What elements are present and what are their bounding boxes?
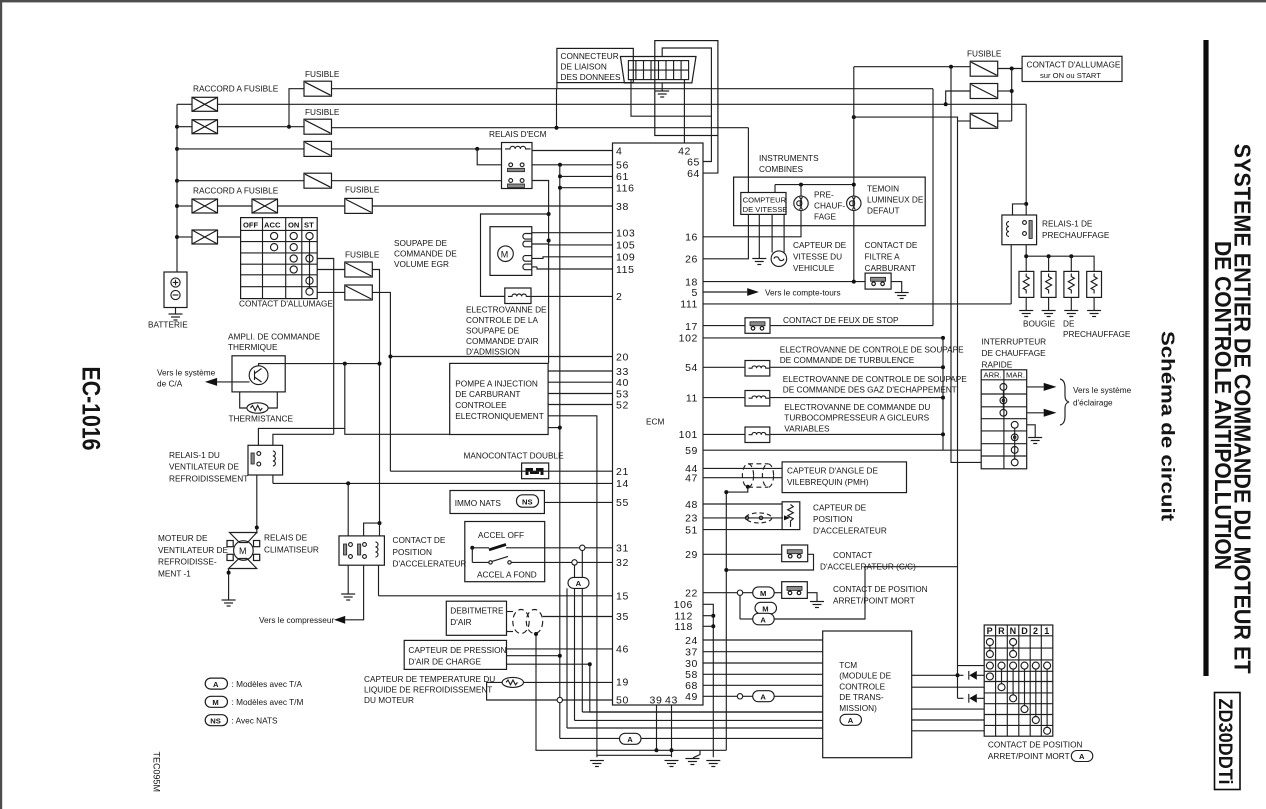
svg-text:2: 2 <box>616 291 622 303</box>
svg-text:CLIMATISEUR: CLIMATISEUR <box>264 545 319 554</box>
svg-text:POMPE A INJECTION: POMPE A INJECTION <box>455 379 538 388</box>
wire: stop switch up to LA <box>770 325 933 327</box>
wire: pump outputs to ECM 33/40/53/52 <box>548 370 612 372</box>
wire: TA drops from circles <box>581 551 583 713</box>
svg-text:ARRET/POINT MORT: ARRET/POINT MORT <box>833 597 915 606</box>
wire: base line to Vers C/A arrow <box>217 381 249 383</box>
wire: temoin lamp down to line 18 <box>853 211 855 282</box>
legend (M) <box>205 696 227 707</box>
svg-text:POSITION: POSITION <box>813 515 852 524</box>
wire: relay contact2 out down to pump <box>532 181 549 364</box>
wire: relay coil out to ECM pin 4 <box>532 150 613 152</box>
svg-text:RELAIS D'ECM: RELAIS D'ECM <box>489 130 547 139</box>
speedometer box COMPTEUR DE VITESSE <box>741 193 786 215</box>
wire: V958 long drop to PRND <box>854 117 958 675</box>
crank sensor CAPTEUR D'ANGLE DE VILEBREQUIN (PMH) <box>742 464 773 487</box>
wire: A branch to V958 <box>774 567 957 619</box>
wire: FB in from LB <box>946 91 971 104</box>
wire: FL1 out long line to preheat relay feed <box>218 103 1027 105</box>
wire: line 54 <box>703 366 745 368</box>
svg-text:46: 46 <box>616 643 629 655</box>
cruise accel switch CONTACT D'ACCELERATEUR (C/C) <box>782 545 808 562</box>
wire: ST feed to fan relay coil <box>273 434 334 445</box>
svg-text:DE CHAUFFAGE: DE CHAUFFAGE <box>982 349 1047 358</box>
wire: glow plug bus <box>1026 256 1094 271</box>
EGR motor pins <box>523 234 532 270</box>
injection pump box POMPE A INJECTION <box>450 363 548 434</box>
diode D1 <box>968 671 970 680</box>
svg-text:21: 21 <box>616 466 629 478</box>
wire: accel feed from pin31 dot <box>471 548 473 563</box>
switch grid ARR/MAR <box>981 370 1026 469</box>
svg-text:ARR.: ARR. <box>984 371 1002 380</box>
glow plug 2 <box>1041 271 1056 310</box>
svg-text:PRE-: PRE- <box>814 191 834 200</box>
wire: line 31 <box>506 547 613 549</box>
wire: bottom bus continues to riser <box>657 749 727 751</box>
wire: line 48 <box>703 503 782 505</box>
svg-text:DEBITMETRE: DEBITMETRE <box>450 607 504 616</box>
svg-text:D'AIR: D'AIR <box>450 618 471 627</box>
svg-text:CONNECTEUR: CONNECTEUR <box>561 52 619 61</box>
fuse FB <box>970 84 998 99</box>
svg-text:(MODULE DE: (MODULE DE <box>839 672 891 681</box>
wire: transistor collector up to line 20 feed <box>259 364 380 366</box>
svg-text:P: P <box>987 626 993 636</box>
wire LD: F2 out ignition line to instruments drop <box>332 127 749 129</box>
wire: line 16 tick <box>703 236 704 238</box>
DLC connector trapezoid <box>620 57 696 83</box>
svg-text:40: 40 <box>616 377 629 389</box>
wire: ignition drop into speedometer <box>747 128 749 193</box>
svg-text:ACC: ACC <box>264 221 281 230</box>
(A) marker TCM <box>840 714 862 725</box>
svg-text:ELECTROVANNE DE CONTROLE DE SO: ELECTROVANNE DE CONTROLE DE SOUPAPE <box>780 345 964 354</box>
svg-text:COMBINES: COMBINES <box>759 165 804 174</box>
ground (39/43) <box>665 761 679 767</box>
wire: AC relay coil to line 15 <box>378 565 380 596</box>
svg-text:DE LIAISON: DE LIAISON <box>561 62 607 71</box>
svg-text:N: N <box>1010 626 1017 636</box>
ECM right pin numbers <box>674 146 700 704</box>
ground (glow4) <box>1087 311 1101 317</box>
wire: temp sensor return loop to pin 50 <box>487 682 613 700</box>
svg-text:VEHICULE: VEHICULE <box>793 264 835 273</box>
wire: switch to fuse F6 <box>317 269 345 271</box>
wire: 106/112/118 ground drop <box>703 604 713 757</box>
svg-text:47: 47 <box>685 473 698 485</box>
svg-text:61: 61 <box>616 171 629 183</box>
wire: temp sensor to pin 19 <box>524 681 613 683</box>
label box CONNECTEUR DE LIAISON DES DONNEES <box>557 48 633 82</box>
fusible link FL2 <box>192 120 218 134</box>
svg-text:A: A <box>627 735 633 744</box>
svg-text:VARIABLES: VARIABLES <box>784 424 830 433</box>
wire: R2 bottom <box>631 80 711 117</box>
svg-text:23: 23 <box>685 513 698 525</box>
svg-text:A: A <box>1079 752 1085 761</box>
ground (glow2) <box>1042 311 1056 317</box>
fuse F1 <box>304 81 332 96</box>
wire: solenoid to ECM pin 2 <box>531 295 613 297</box>
ground (AC relay) <box>341 594 355 600</box>
svg-text:15: 15 <box>616 591 629 603</box>
brace to lighting system <box>1060 379 1069 425</box>
wire: EGR pin lines to ECM 103/105/109/115 <box>532 232 613 234</box>
svg-text:: Avec NATS: : Avec NATS <box>232 717 279 726</box>
svg-text:NS: NS <box>210 716 221 725</box>
wire: coil pin hook <box>1013 204 1027 215</box>
wire: A/T branch from line 22 <box>739 595 741 619</box>
svg-text:M: M <box>501 250 509 260</box>
wire: contact feed to fan relay <box>258 428 344 445</box>
wire: switch to lighting arrows <box>1027 386 1044 388</box>
wire: F6 out down to A/C relay <box>372 270 379 524</box>
glow plug 3 <box>1064 271 1079 310</box>
wire: TCM lower outputs to grid <box>912 708 985 710</box>
svg-text:115: 115 <box>616 264 635 276</box>
svg-text:RELAIS-1 DE: RELAIS-1 DE <box>1042 220 1093 229</box>
wire: immo to pin 55 <box>544 501 612 503</box>
svg-text:EC-1016: EC-1016 <box>77 367 105 451</box>
boost sensor CAPTEUR DE PRESSION D'AIR DE CHARGE <box>404 640 506 669</box>
wire: V597 ground spur <box>597 754 672 756</box>
svg-text:11: 11 <box>686 392 698 404</box>
wire: lines 44/47 <box>703 467 782 469</box>
wire: fan relay contact to motor <box>256 475 258 534</box>
svg-text:DES DONNEES: DES DONNEES <box>561 73 622 82</box>
svg-text:ELECTROVANNE DE CONTROLE DE SO: ELECTROVANNE DE CONTROLE DE SOUPAPE <box>783 375 967 384</box>
wire: AC relay contact2 to compressor arrow <box>345 565 363 620</box>
(A) marker on TA drops <box>568 577 589 588</box>
svg-text:D'AIR DE CHARGE: D'AIR DE CHARGE <box>408 657 481 666</box>
svg-text:17: 17 <box>685 321 698 333</box>
ground (ECM main) <box>590 761 604 767</box>
fuse F6 <box>345 262 373 277</box>
relay RELAIS-1 DE PRECHAUFFAGE <box>1002 215 1037 245</box>
svg-text:VITESSE DU: VITESSE DU <box>793 253 842 262</box>
DLC inner loop R2 <box>662 48 711 162</box>
wire: solenoid3 out <box>770 433 943 435</box>
svg-text:RACCORD A FUSIBLE: RACCORD A FUSIBLE <box>193 187 279 196</box>
arrow Vers le compresseur <box>334 616 345 624</box>
wire: switch ground <box>1027 425 1036 438</box>
svg-text:ST: ST <box>304 221 314 230</box>
wire: temoin feed drop V854 <box>853 67 855 197</box>
svg-text:ELECTROVANNE DE: ELECTROVANNE DE <box>466 306 547 315</box>
svg-text:R: R <box>998 626 1005 636</box>
legend (A) <box>205 678 227 689</box>
wire: pressure sensor to TCM drop <box>507 663 590 665</box>
svg-text:SOUPAPE DE: SOUPAPE DE <box>466 327 520 336</box>
svg-text:A: A <box>760 693 766 702</box>
ground (fast heat switch) <box>1028 438 1042 444</box>
svg-text:DE VITESSE: DE VITESSE <box>743 205 788 214</box>
wire: pump output to long feed V559 <box>548 427 560 429</box>
wire LA: F1 out to right side <box>332 88 934 90</box>
wire: battery bus <box>176 104 178 272</box>
svg-text:TURBOCOMPRESSEUR A GICLEURS: TURBOCOMPRESSEUR A GICLEURS <box>784 414 929 423</box>
svg-text:26: 26 <box>685 254 698 266</box>
gear position grid P R N D 2 1 <box>984 625 1053 736</box>
air flow meter DEBITMETRE D'AIR <box>446 601 506 635</box>
svg-text:M: M <box>239 546 247 556</box>
fuse FC <box>970 113 998 128</box>
relay RELAIS-1 ventilateur <box>248 445 283 475</box>
svg-text:CONTROLE DE LA: CONTROLE DE LA <box>466 316 538 325</box>
svg-text:Vers le système: Vers le système <box>157 369 216 378</box>
DLC pin grid <box>628 61 688 80</box>
svg-text:A: A <box>576 579 582 588</box>
fuse F3 <box>304 141 332 156</box>
svg-text:CONTACT DE POSITION: CONTACT DE POSITION <box>988 741 1083 750</box>
wire: DLC pin to ECM pin 42 <box>683 80 685 143</box>
svg-text:50: 50 <box>616 694 629 706</box>
ground (glow3) <box>1064 311 1078 317</box>
wire: line 14 to ECM <box>273 482 613 484</box>
svg-text:TCM: TCM <box>839 661 857 670</box>
wire: feed to fuse FA <box>854 66 970 68</box>
svg-text:A: A <box>213 680 219 689</box>
svg-text:CAPTEUR DE: CAPTEUR DE <box>813 504 867 513</box>
wire: switch ST output down to fan relay feed <box>317 259 334 435</box>
wire: switch to fuse F7 <box>317 291 345 293</box>
ground (bent) <box>693 750 700 758</box>
solenoid ELECTROVANNE admission <box>505 288 531 304</box>
svg-text:116: 116 <box>616 183 635 195</box>
(A) marker line 49 <box>753 691 775 702</box>
(M) marker below <box>755 602 777 614</box>
svg-text:LIQUIDE DE REFROIDISSEMENT: LIQUIDE DE REFROIDISSEMENT <box>364 685 492 694</box>
wire: speedometer ground pin <box>758 214 760 258</box>
svg-text:32: 32 <box>616 557 629 569</box>
svg-text:111: 111 <box>680 299 698 311</box>
fuse F7 <box>345 285 373 300</box>
wire: pins 39/43 drop <box>656 705 658 750</box>
svg-text:20: 20 <box>616 351 629 363</box>
svg-text:DE: DE <box>1063 320 1075 329</box>
(A) marker <box>753 613 775 625</box>
svg-text:d'éclairage: d'éclairage <box>1073 399 1113 408</box>
EGR valve motor box <box>490 227 532 276</box>
svg-text:RAPIDE: RAPIDE <box>982 360 1013 369</box>
svg-text:54: 54 <box>685 362 698 374</box>
wire: flow meter bottom to bottom bus <box>536 634 657 751</box>
wire: FA out to ignition box <box>998 68 1022 70</box>
neutral switch CONTACT DE POSITION ARRET/POINT MORT <box>782 582 808 599</box>
svg-text:REFROIDISSEMENT: REFROIDISSEMENT <box>169 474 248 483</box>
transistor Q1 <box>249 366 268 385</box>
wire: pressure sensor line 46 <box>507 648 613 650</box>
svg-text:: Modèles avec T/A: : Modèles avec T/A <box>232 680 303 689</box>
TCM box <box>823 631 912 758</box>
svg-text:MOTEUR DE: MOTEUR DE <box>158 534 208 543</box>
svg-text:ON: ON <box>288 221 299 230</box>
svg-text:ARRET/POINT MORT :: ARRET/POINT MORT : <box>988 752 1074 761</box>
svg-text:D'ACCELERATEUR: D'ACCELERATEUR <box>813 527 887 536</box>
svg-text:24: 24 <box>685 635 698 647</box>
svg-text:49: 49 <box>685 691 698 703</box>
svg-text:4: 4 <box>616 146 622 158</box>
wire: line 11 <box>703 397 745 399</box>
wire: AC relay to ground <box>347 565 349 594</box>
svg-text:48: 48 <box>685 499 698 511</box>
svg-text:BATTERIE: BATTERIE <box>148 321 188 330</box>
wire: line 111 to preheat relay coil <box>703 303 1011 305</box>
wire: label box corner to ignition line <box>556 83 558 89</box>
immobilizer IMMO NATS <box>450 491 544 514</box>
(M) marker <box>753 587 775 599</box>
svg-text:33: 33 <box>616 366 629 378</box>
relay RELAIS DE CLIMATISEUR <box>339 536 384 565</box>
svg-text:14: 14 <box>616 478 629 490</box>
fuse F4 <box>304 173 332 188</box>
svg-text:DE CARBURANT: DE CARBURANT <box>455 390 520 399</box>
svg-text:COMMANDE DE: COMMANDE DE <box>394 250 457 259</box>
svg-text:DEFAUT: DEFAUT <box>867 207 900 216</box>
svg-text:103: 103 <box>616 228 635 240</box>
svg-text:PRECHAUFFAGE: PRECHAUFFAGE <box>1042 231 1110 240</box>
svg-text:1: 1 <box>1044 626 1049 636</box>
svg-text:43: 43 <box>665 695 678 707</box>
svg-text:sur ON ou START: sur ON ou START <box>1040 71 1101 80</box>
svg-text:DU MOTEUR: DU MOTEUR <box>364 696 414 705</box>
fusible link FL5 <box>192 230 218 244</box>
coolant temp sensor thermistor <box>502 677 523 687</box>
amp box U1 <box>232 356 285 392</box>
svg-text:A: A <box>848 716 854 725</box>
svg-text:FUSIBLE: FUSIBLE <box>345 251 380 260</box>
wire: filter switch to ground <box>891 282 902 293</box>
svg-text:LUMINEUX DE: LUMINEUX DE <box>867 196 924 205</box>
arrow Vers le compte-tours <box>747 288 759 296</box>
svg-text:NS: NS <box>522 497 533 506</box>
wire: relay contact to glow plug bus <box>1025 245 1027 272</box>
svg-text:: Modèles avec T/M: : Modèles avec T/M <box>232 698 304 707</box>
EGR motor M <box>498 246 514 262</box>
wire: fan relay feeds <box>345 364 450 435</box>
svg-text:Schéma de circuit: Schéma de circuit <box>1158 331 1179 521</box>
wire: line 23 through connector to wiper <box>703 517 783 519</box>
wire: V559 corner to TCM (A) line <box>560 737 620 739</box>
wire: 56/61/116 tie vertical continuing down as long feed <box>559 165 561 739</box>
svg-text:109: 109 <box>616 252 635 264</box>
svg-text:DE COMMANDE DES GAZ D'ECHAPPEM: DE COMMANDE DES GAZ D'ECHAPPEMENT <box>783 386 957 395</box>
svg-text:102: 102 <box>679 333 698 345</box>
wire: pin 61 line <box>560 175 613 177</box>
svg-text:Vers le compte-tours: Vers le compte-tours <box>765 289 841 298</box>
svg-text:CONTACT D'ALLUMAGE: CONTACT D'ALLUMAGE <box>1027 61 1121 70</box>
wire: switch return to bottom bus riser <box>726 554 813 570</box>
svg-text:RELAIS-1 DU: RELAIS-1 DU <box>169 451 220 460</box>
svg-text:52: 52 <box>616 399 629 411</box>
EGR valve outer box <box>481 214 549 296</box>
wire: pump output to ground drop V597 <box>548 416 597 758</box>
svg-text:CAPTEUR D'ANGLE DE: CAPTEUR D'ANGLE DE <box>787 466 878 475</box>
DLC outer loop R1 <box>655 41 718 136</box>
svg-text:TEMOIN: TEMOIN <box>867 185 899 194</box>
switch contact ACCEL A FOND <box>472 561 489 563</box>
right separator black bar <box>1203 40 1208 676</box>
ground (fan motor) <box>222 600 236 606</box>
svg-text:DE TRANS-: DE TRANS- <box>839 693 884 702</box>
wire: tie LA-LD <box>556 89 558 128</box>
wire: solenoid1 out <box>770 366 943 368</box>
solenoid turbulence <box>745 361 770 377</box>
wire: pin 116 line <box>560 187 613 189</box>
wire: fan relay coil to line 14 <box>272 475 274 483</box>
svg-text:CAPTEUR DE PRESSION: CAPTEUR DE PRESSION <box>408 646 506 655</box>
svg-text:CHAUF-: CHAUF- <box>814 202 845 211</box>
svg-text:COMPTEUR: COMPTEUR <box>743 195 787 204</box>
wire: line 18 <box>703 281 865 283</box>
svg-text:ELECTROVANNE DE COMMANDE DU: ELECTROVANNE DE COMMANDE DU <box>784 403 930 412</box>
ignition switch CONTACT D'ALLUMAGE grid <box>241 218 318 299</box>
fuse F2 <box>304 119 332 134</box>
svg-text:VENTILATEUR DE: VENTILATEUR DE <box>169 463 239 472</box>
svg-text:35: 35 <box>616 611 629 623</box>
svg-text:INSTRUMENTS: INSTRUMENTS <box>759 154 819 163</box>
wire: ECM to TCM lines 24/37/30/58/68 <box>703 639 823 641</box>
svg-text:MANOCONTACT DOUBLE: MANOCONTACT DOUBLE <box>464 452 565 461</box>
svg-text:64: 64 <box>687 168 700 180</box>
ECM left pin numbers <box>616 146 635 707</box>
page top edge line <box>0 0 1266 2</box>
box CONTACT D'ALLUMAGE sur ON ou START <box>1022 56 1122 81</box>
glow plug 4 <box>1087 271 1102 310</box>
wire: lamp1 to line 16 <box>703 211 801 237</box>
svg-text:THERMISTANCE: THERMISTANCE <box>229 415 294 424</box>
svg-text:VOLUME EGR: VOLUME EGR <box>394 260 449 269</box>
svg-text:ECM: ECM <box>646 418 664 427</box>
svg-text:CONTACT: CONTACT <box>833 551 872 560</box>
svg-text:ELECTRONIQUEMENT: ELECTRONIQUEMENT <box>455 412 543 421</box>
ground (DLC) <box>655 91 669 97</box>
wire: F4 out to ECM relay contact2 <box>332 180 502 182</box>
svg-text:D'ADMISSION: D'ADMISSION <box>466 348 520 357</box>
svg-text:VENTILATEUR DE: VENTILATEUR DE <box>158 546 228 555</box>
wire: AC relay feeds from fuse F6 drop <box>378 521 382 525</box>
wire: line 29 <box>703 553 782 555</box>
fusible link FL1 <box>192 97 218 111</box>
wire: TCM to diode 1 <box>912 674 964 676</box>
ground (neutral switch) <box>810 602 824 608</box>
svg-text:CARBURANT: CARBURANT <box>865 264 916 273</box>
wire: FC out <box>998 120 1012 122</box>
svg-text:CAPTEUR DE: CAPTEUR DE <box>793 241 847 250</box>
wire: fuse output tie <box>1011 69 1013 122</box>
svg-text:TEC095M: TEC095M <box>152 752 162 793</box>
svg-text:M: M <box>212 698 218 707</box>
svg-text:CONTACT DE: CONTACT DE <box>393 536 446 545</box>
wire: lamp bus <box>775 184 854 186</box>
wire: TA drop lines to TCM <box>582 711 822 713</box>
svg-text:55: 55 <box>616 497 629 509</box>
ground (battery) <box>169 314 183 320</box>
svg-text:ZD30DDTi: ZD30DDTi <box>1214 699 1235 785</box>
wire: FB out <box>998 90 1012 92</box>
svg-text:FAGE: FAGE <box>814 213 837 222</box>
wire: line 20 to ECM <box>390 356 612 358</box>
svg-text:CONTROLE: CONTROLE <box>839 682 885 691</box>
svg-text:19: 19 <box>616 677 629 689</box>
wire: TCM to grid R row <box>912 686 985 688</box>
diode D2 <box>968 694 970 703</box>
wire: line 32 <box>511 561 613 563</box>
svg-text:51: 51 <box>685 524 698 536</box>
battery BATTERIE <box>164 272 187 314</box>
svg-text:M: M <box>760 589 766 598</box>
